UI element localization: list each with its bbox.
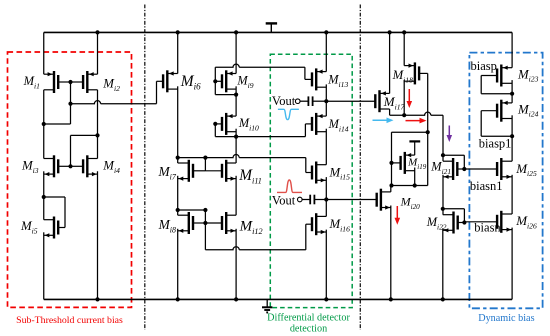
wire VDD to M_i2 source [97,32,99,74]
node dot gate feed M_i7/M_i11 [203,156,207,160]
wire lower Vout to capacitor [302,199,310,201]
node dot VDD/M_i18 [402,30,406,34]
section divider line left (dash-dot) [144,5,146,331]
svg-text:biasp1: biasp1 [479,137,512,151]
node dot mirror node / M_i19 drain [413,183,417,187]
wire M_i2 drain down to M_i4 drain [97,90,99,159]
node dot M_i7 source / M_i8 gate tie [176,208,180,212]
transistor M_i22 [443,212,465,234]
svg-text:biasn: biasn [474,221,501,235]
wire summing line down to M_i21 [442,115,444,161]
transistor M_i11 [205,160,236,182]
svg-text:Vout: Vout [272,194,296,208]
node dot M_i9 gate tap [213,79,217,83]
current arrow red down through M_i20 [396,206,398,220]
green dashed box Differential detector detection [270,54,352,307]
wire M_i1/M_i2 gate line to M_i6 gate (hops M_i2 drain) [71,101,157,104]
wire M_i18 drain down [403,80,405,115]
wire M_i18 gate node horizontal [392,131,428,133]
wire gate junction to M_i2 drain [71,134,98,136]
node dot diode tie corner [203,208,207,212]
wire M_i9 drain stub join [235,86,237,94]
transistor M_i5 [44,217,65,239]
wire M_i11 source down to M_i12 drain [235,176,237,215]
node dot VDD/M_i9 [234,30,238,34]
wire M_i19 drain down to mirror node [414,168,416,186]
node dot VSS/M_i20 [389,297,393,301]
wire M_i3 source down to M_i5 drain [43,171,45,219]
wire M_i8 source to VSS [177,229,179,300]
node dot VSS/M_i16 [324,297,328,301]
wire M_i24 drain down to M_i25 drain [511,115,513,161]
wire M_i23 diode loop bottom [481,93,512,95]
wire gate node to M_i1 drain [44,123,71,125]
wire M_i5 diode loop horizontal [44,196,65,198]
wire M_i21 diode loop top [443,154,464,156]
wire M_i18 gate drop [427,73,429,132]
node dot upper Vout node [324,99,328,103]
transistor M_i20 [377,189,391,211]
node dot M_i2 drain / M_i3 M_i4 gate feed [95,133,99,137]
wire M_i20 source to VSS [390,206,392,300]
wire M_i9 diode line to M_i13 gate (hops VDD drop) [215,64,305,67]
wire M_i22 diode loop drop to gate [463,209,465,223]
wire M_i4 source to VSS [97,171,99,299]
VDD top rail [44,31,512,33]
wire M_i25 source down to M_i26 drain [511,175,513,214]
VDD T symbol of M_i19 source [409,141,420,155]
node dot M_i21 gate / biasn1 [462,167,466,171]
transistor M_i26 [464,211,512,233]
waveform dip (blue) under upper Vout [278,109,299,119]
node dot gate tap to M_i6 [68,102,72,106]
transistor M_i9 [215,70,236,92]
wire M_i1 drain down to M_i3 drain [43,90,45,159]
transistor M_i1 [44,71,71,93]
wire M_i15 source to lower Vout node [325,177,327,216]
wire gate junction down to detector line [204,223,206,250]
transistor M_i6 [157,70,178,92]
blue dash-dot box Dynamic bias [469,53,542,309]
wire M_i13 gate drop [304,67,306,79]
wire VDD to M_i18 source [403,32,405,65]
wire M_i6 drain down to M_i7 drain [177,86,179,163]
transistor M_i4 [71,155,98,177]
node dot VSS/M_i8 [176,297,180,301]
transistor M_i2 [71,71,98,93]
transistor M_i10 [215,113,236,135]
wire gate node down [70,82,72,124]
wire M_i8 diode tie horizontal [178,209,206,211]
wire M_i15 gate drop [305,158,307,173]
wire M_i23 diode loop vertical [480,76,482,94]
wire M_i14 gate rise [304,124,306,137]
wire VDD to M_i13 source [325,32,327,71]
transistor M_i3 [44,155,71,177]
transistor M_i16 [306,213,327,235]
wire upper Vout to capacitor [300,100,308,102]
terminal circle upper Vout [295,99,300,104]
terminal circle lower Vout [298,197,303,202]
wire mirror node to M_i20 drain [390,186,392,192]
wire M_i21 diode loop drop to gate [463,155,465,169]
VDD supply T symbol [266,23,277,32]
wire M_i10 drain down to M_i11 drain (passes under stage line) [235,137,237,163]
svg-text:biasp: biasp [471,59,497,73]
transistor M_i23 [481,65,512,87]
node dot M_i18 gate node [426,130,430,134]
transistor M_i13 [305,68,326,90]
node dot M_i22 drain tie [441,207,445,211]
wire M_i10 source down from node [235,95,237,117]
section divider line right (dash-dot) [359,5,361,331]
node dot VSS/M_i22 [441,297,445,301]
svg-text:Dynamic bias: Dynamic bias [478,313,534,324]
VSS bottom rail [44,298,512,300]
wire M_i12 source to VSS [235,229,237,300]
current arrow purple down to M_i21 [448,126,450,138]
wire M_i9 drain bottom link [215,94,236,96]
transistor M_i8 [178,212,206,234]
wire upper capacitor to node [313,100,327,102]
node dot VSS/M_i12 [234,297,238,301]
wire M_i26 source to VSS rail corner [511,228,513,300]
wire M_i5 diode loop vertical [64,197,66,228]
wire M_i16 gate rise [305,224,307,250]
wire M_i22 source to VSS [442,228,444,299]
node dot M_i23 drain / M_i24 source [510,92,514,96]
svg-text:Vout: Vout [272,94,296,108]
capacitor lower Vout [310,195,314,205]
current arrow cyan right into summing node [373,119,389,121]
node dot M_i1/M_i2 gate node [68,80,72,84]
node dot VSS/M_i4 [95,297,99,301]
wire VDD to M_i1 source [43,32,45,74]
wire lower capacitor to node [314,199,326,201]
wire VDD to M_i9 source [235,32,237,73]
svg-text:Differential detector: Differential detector [267,312,350,323]
transistor M_i17 [375,90,389,112]
node dot M_i1 drain gate tie [42,122,46,126]
wire VDD to M_i6 source [177,32,179,73]
current arrow red right on summing node [406,120,422,122]
node dot M_i22 gate / biasn [462,220,466,224]
wire lower Vout node to M_i20 gate [326,199,377,201]
wire M_i10 drain stub join [235,129,237,137]
wire M_i10 gate loop vertical [214,124,216,137]
node dot mirror node left [389,183,393,187]
wire M_i24 diode loop vertical [480,111,482,137]
node dot M_i18 drain on summing line [402,113,406,117]
wire M_i3/M_i4 gate junction up [70,135,72,166]
wire upper Vout node to M_i17 gate [326,100,376,102]
transistor M_i21 [443,158,464,180]
node dot VDD/M_i17 [388,30,392,34]
wire first stage output line to M_i15 gate (hops M_i11 drain) [178,155,306,158]
transistor M_i24 [481,100,512,122]
capacitor upper Vout [308,96,312,106]
node dot M_i19 gate tap [389,161,393,165]
svg-text:Sub-Threshold current bias: Sub-Threshold current bias [16,315,123,326]
mirror node line [392,185,428,187]
wire M_i9 gate loop vertical [214,67,216,94]
svg-text:detection: detection [290,324,327,335]
transistor M_i25 [464,158,512,180]
node dot M_i10 gate tap [213,122,217,126]
transistor M_i12 [205,212,236,234]
transistor M_i19 [392,152,415,174]
wire M_i22 diode loop top [443,208,465,210]
wire M_i13 drain to Vout node [325,84,327,116]
node dot M_i24 drain / biasp1 node [510,134,514,138]
summing node line (hops M_i18 gate drop) [390,112,443,115]
transistor M_i15 [306,162,327,184]
wire M_i16 source to VSS [325,230,327,300]
wire M_i7 source down to M_i8 drain [177,176,179,215]
wire M_i21 source down to M_i22 drain [442,175,444,215]
wire VDD to M_i17 source [389,32,391,93]
wire diode tie down to gate junction [204,210,206,223]
node dot M_i8/M_i12 gate junction [203,221,207,225]
wire VDD rail corner down to M_i23 source [511,32,513,67]
wire M_i14 drain down to M_i15 drain [325,129,327,165]
node dot VDD/M_i13 [324,30,328,34]
wire down to M_i7/M_i11 gates [204,158,206,171]
svg-text:biasn1: biasn1 [470,179,503,193]
node dot M_i3/M_i4 gates [68,164,72,168]
current arrow red down through M_i18 branch [408,89,410,103]
transistor M_i7 [178,160,206,182]
wire M_i18 gate node right drop [427,132,429,185]
node dot M_i5 gate tie [42,195,46,199]
wire M_i8/M_i12 gate line to M_i16 gate (hops M_i12 source) [205,247,305,250]
node dot M_i21 drain tie [441,153,445,157]
transistor M_i14 [305,113,326,135]
wire M_i17 drain down to summing line [389,109,391,115]
wire M_i24 diode loop bottom [481,135,512,137]
node dot M_i6 drain node [176,156,180,160]
node dot VDD/M_i6 [176,30,180,34]
wire M_i10 diode line to M_i14 gate [215,136,305,138]
node dot M_i10 drain node [234,135,238,139]
wire M_i5 source to VSS [43,232,45,299]
wire left bias rail down to mirror node [391,132,393,185]
waveform pulse (red) above lower Vout [277,180,302,192]
ground symbol [262,299,272,312]
transistor M_i18 [404,62,428,84]
wire M_i23 drain to node [511,80,513,103]
node dot M_i9 drain / M_i10 source [234,93,238,97]
red dashed box Sub-Threshold current bias [8,52,132,307]
node dot lower Vout node [324,197,328,201]
node dot VDD/M_i2 [95,30,99,34]
